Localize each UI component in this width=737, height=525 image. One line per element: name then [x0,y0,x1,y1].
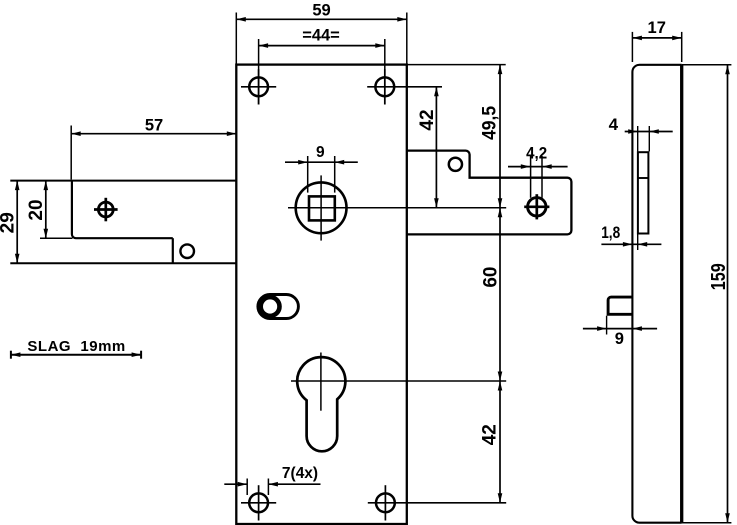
top-left screw crosshair [241,86,276,88]
dim 9 side extension line [606,316,608,335]
oval slot [258,295,299,319]
svg-text:59: 59 [312,1,330,19]
dim 1,8 line [601,243,661,245]
dim 42 top line [435,87,437,208]
dim 29 line [16,181,18,264]
svg-text:1,8: 1,8 [601,224,620,242]
dim 4 line [625,131,673,133]
spindle hole circle [296,182,347,233]
bottom-left screw hole [249,493,268,512]
bottom-right screw crosshair + dim 42 extension [368,502,506,504]
cylinder centerline horizontal to dim lines [291,380,506,382]
dim 49,5 line [499,65,501,208]
dim 20 extension stub [40,237,73,239]
dim 4 extension lines [637,126,639,151]
dim 20 line [45,181,47,239]
dim 7 leader shelf [268,483,320,485]
svg-text:159: 159 [708,263,730,290]
faceplate side view outline [632,65,681,523]
bolt housing outline [407,151,572,235]
svg-text:17: 17 [648,19,666,37]
svg-text:60: 60 [480,267,501,288]
latch guide hole [180,244,194,258]
svg-text:9: 9 [316,144,325,161]
spindle centerline vertical [320,175,322,240]
top-right screw crosshair + dim 42 extension [367,86,442,88]
dim 9 extension lines [307,156,309,193]
top-right screw hole [375,77,394,96]
svg-text:42: 42 [479,424,500,445]
latch bolt left edge [72,181,173,239]
lock case body outline [236,65,406,524]
follower pin bold circle [261,297,280,316]
svg-text:42: 42 [417,109,438,130]
dim 1,8 extension line [637,234,639,250]
latch bolt top edge with extension [10,180,236,182]
svg-text:4,2: 4,2 [526,144,547,162]
svg-text:57: 57 [145,116,163,134]
dim 59 extension line left [235,13,237,65]
latch step [172,238,174,263]
dim 44 extension line left [258,39,260,105]
body top extension to dim 49,5 [407,64,506,66]
dim 159 line [727,65,729,523]
svg-text:7(4x): 7(4x) [282,465,318,482]
dim 17 extension lines [631,32,633,62]
dim 7 line left [224,483,247,485]
bottom-right screw hole [376,493,395,512]
dim 57 extension line [70,126,72,180]
SLAG dimension line [11,354,141,356]
dim 60 line [499,208,501,381]
euro cylinder profile hole [297,357,345,451]
faceplate bottom extension line [682,522,732,524]
dim 9 side line [583,328,657,330]
dim 7 extension lines [246,479,248,496]
faceplate slot [638,152,649,233]
spindle square hole [309,196,335,220]
faceplate right edge bold [680,65,683,523]
svg-text:49,5: 49,5 [479,106,500,140]
dim 4,2 extension lines [530,156,532,198]
latch screw position mark [98,202,113,217]
svg-text:20: 20 [26,199,47,220]
faceplate slot divider [638,177,649,179]
bottom-left screw crosshair [241,502,276,504]
4,2 screw position mark [528,198,546,216]
latch bolt side view [608,297,632,314]
dim 17 line [632,37,681,39]
svg-text:9: 9 [615,330,624,348]
dim 4,2 line [508,166,568,168]
svg-text:SLAG 19mm: SLAG 19mm [27,338,125,355]
dim 57 line [71,133,236,135]
dim 44 extension line right [384,39,386,105]
svg-text:29: 29 [0,212,19,233]
dim 59 extension line right [406,13,408,65]
dim 42 bottom line [499,381,501,503]
latch bottom edge with extension [10,262,236,264]
top-left screw hole [249,77,268,96]
svg-text:4: 4 [609,115,619,134]
dim 59 line [236,18,406,20]
bolt housing hole [449,158,462,171]
spindle centerline horizontal to dim lines [288,207,506,209]
dim 9 line [285,161,358,163]
svg-text:=44=: =44= [302,27,340,45]
cylinder centerline vertical [320,353,322,411]
dim 44 line [259,45,385,47]
faceplate top extension line [682,64,732,66]
